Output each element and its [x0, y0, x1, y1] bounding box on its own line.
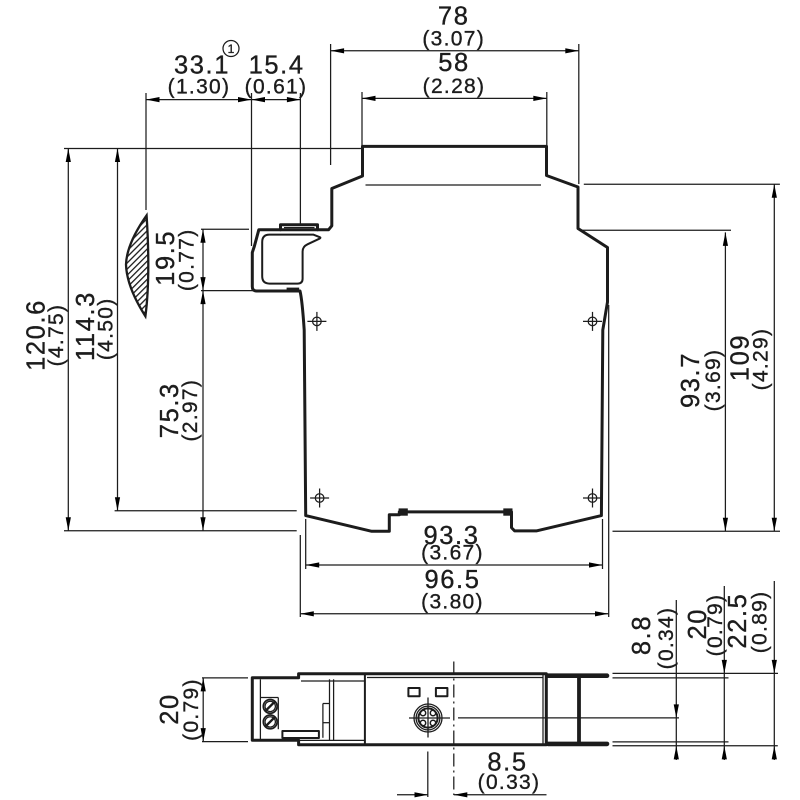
cap bottom inner line — [366, 184, 542, 186]
dim 20 left — [156, 678, 248, 742]
svg-text:(3.69): (3.69) — [702, 349, 725, 412]
dim 78 — [331, 3, 579, 185]
terminal tab — [281, 225, 318, 230]
dim 96.5 — [300, 535, 608, 617]
inner surface lines — [301, 680, 364, 682]
rail edge line right — [608, 305, 610, 617]
dim 58 — [362, 49, 547, 146]
partition wall — [364, 674, 366, 745]
LED windows — [408, 688, 419, 696]
spring (hatched lens) — [126, 215, 148, 316]
dim 93.3 — [306, 519, 603, 569]
screw 2 — [263, 715, 277, 729]
dim 93.7 — [677, 232, 728, 531]
svg-text:(0.77): (0.77) — [176, 228, 199, 291]
dim 109 — [727, 184, 777, 531]
svg-text:(2.28): (2.28) — [423, 75, 486, 98]
device centerline (dash-dot) — [453, 662, 455, 796]
svg-text:(2.97): (2.97) — [179, 379, 202, 442]
partition thin verticals — [329, 679, 331, 740]
device body outline with cap and DIN-rail foot — [252, 146, 607, 531]
svg-text:(4.29): (4.29) — [749, 328, 772, 391]
dim 120.6 — [22, 149, 71, 531]
dim 114.3 — [72, 149, 120, 511]
svg-text:(3.07): (3.07) — [422, 27, 485, 50]
svg-text:(3.67): (3.67) — [421, 542, 484, 565]
bottom view outline — [252, 674, 546, 745]
dark notch on terminal bottom — [287, 288, 300, 292]
terminal inner wall — [259, 679, 261, 740]
svg-text:(0.33): (0.33) — [478, 771, 541, 794]
svg-text:8.8: 8.8 — [628, 615, 656, 655]
dim 19.5 — [152, 228, 299, 291]
connector centerline extensions — [458, 717, 679, 719]
svg-text:78: 78 — [438, 3, 470, 31]
terminal inner cavity — [262, 235, 320, 284]
svg-text:(3.80): (3.80) — [421, 591, 484, 614]
svg-text:(0.89): (0.89) — [749, 591, 772, 654]
dim 15.4 — [245, 52, 308, 224]
dim 8.8 — [628, 600, 679, 760]
svg-text:1: 1 — [228, 42, 235, 56]
svg-text:(0.61): (0.61) — [245, 76, 308, 99]
mounting crosshairs — [307, 312, 602, 508]
M8 connector — [409, 698, 450, 738]
svg-text:58: 58 — [438, 49, 470, 77]
svg-text:(0.79): (0.79) — [180, 678, 203, 741]
dim 8.5 — [397, 749, 547, 798]
right reference lines — [584, 183, 780, 185]
svg-text:(0.34): (0.34) — [655, 607, 678, 670]
svg-text:(1.30): (1.30) — [168, 76, 231, 99]
svg-text:(4.75): (4.75) — [45, 304, 68, 367]
dim 75.3 — [156, 291, 206, 531]
screw box — [261, 697, 278, 699]
dim 33.1 (1) — [146, 41, 252, 247]
rail-foot notch squares — [399, 508, 408, 515]
dim 22.5 — [724, 581, 777, 760]
dim 20 right — [684, 586, 727, 760]
label plate — [282, 731, 319, 738]
DIN rail section — [548, 676, 607, 744]
left reference lines — [64, 148, 361, 150]
screw 1 — [263, 700, 277, 714]
svg-text:(4.50): (4.50) — [94, 297, 117, 360]
rail continuation lines — [613, 672, 779, 674]
svg-text:93.7: 93.7 — [677, 352, 705, 408]
